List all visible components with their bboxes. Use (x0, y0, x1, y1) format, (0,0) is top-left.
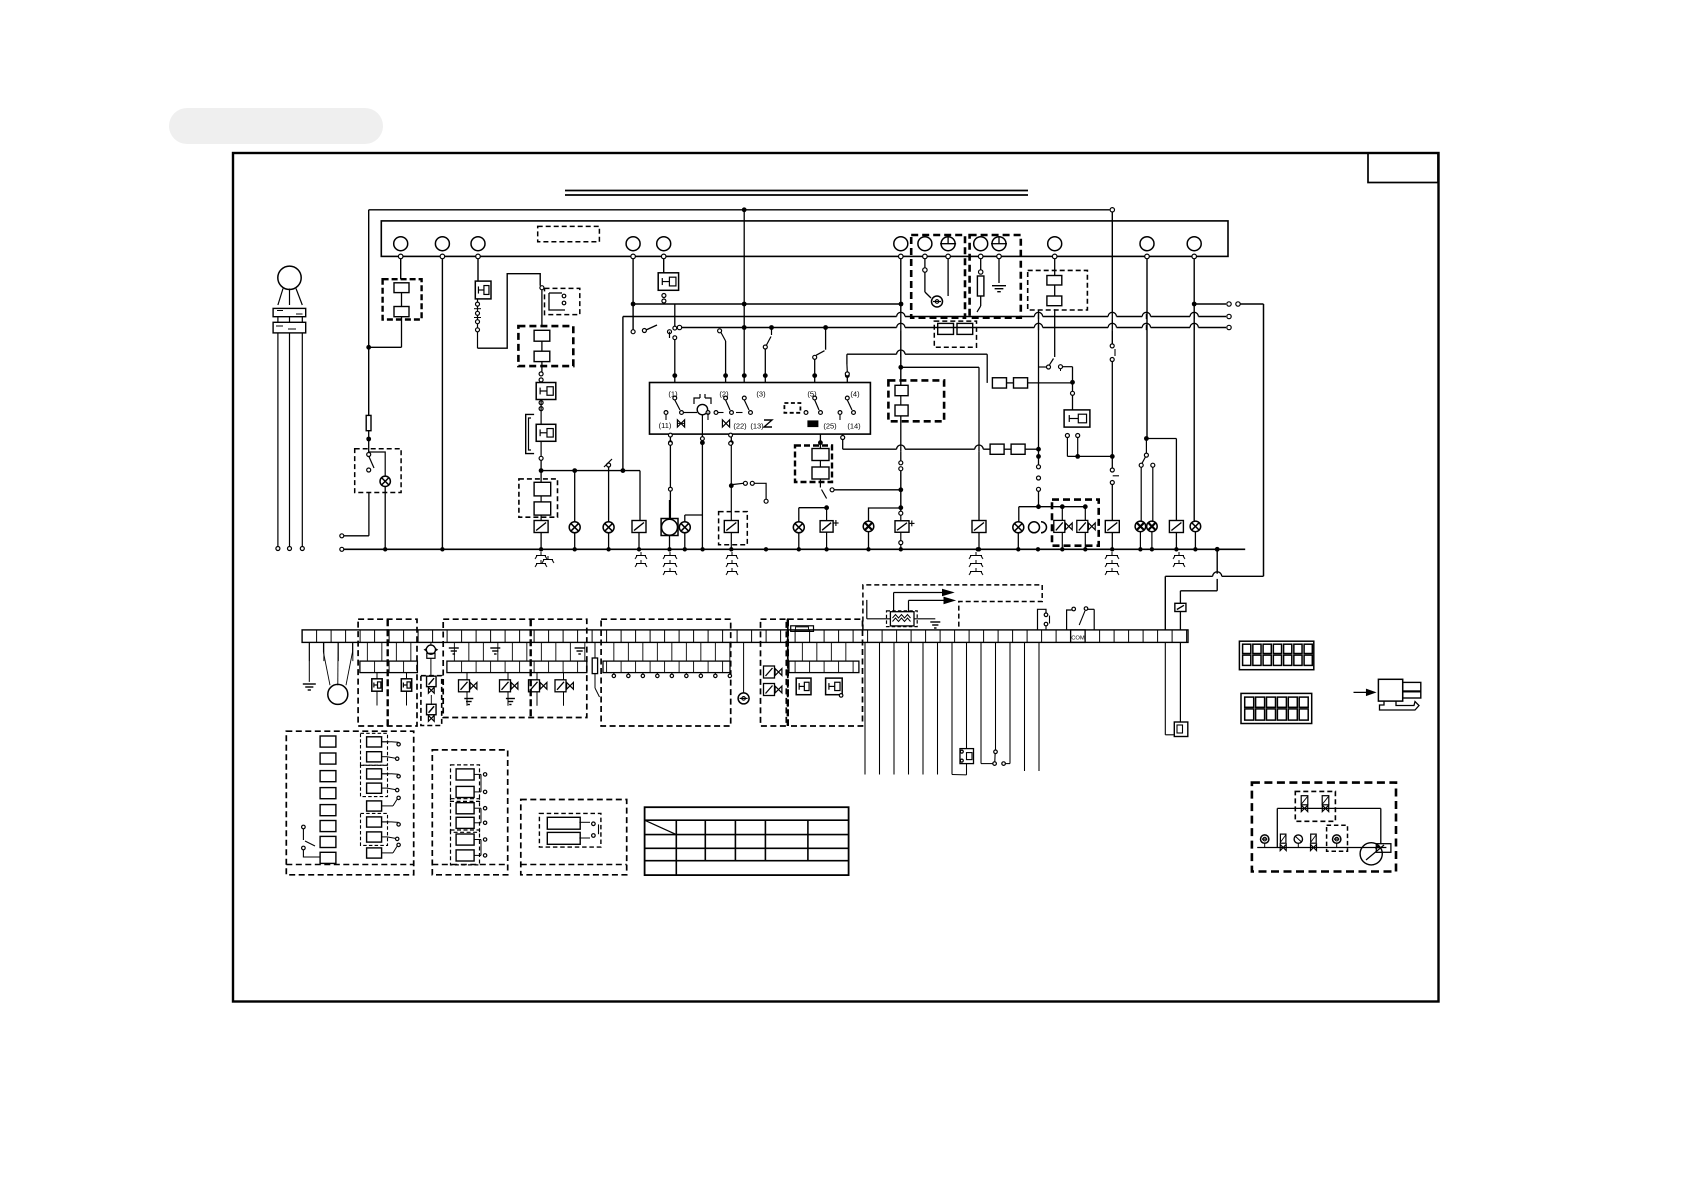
svg-text:(25): (25) (823, 422, 837, 431)
svg-text:(14): (14) (847, 422, 861, 431)
svg-text:(4): (4) (850, 390, 860, 399)
svg-text:(22): (22) (733, 422, 747, 431)
svg-text:COM: COM (1071, 635, 1085, 641)
svg-text:(11): (11) (659, 421, 672, 430)
svg-text:(3): (3) (756, 390, 766, 399)
svg-text:(13): (13) (750, 422, 764, 431)
